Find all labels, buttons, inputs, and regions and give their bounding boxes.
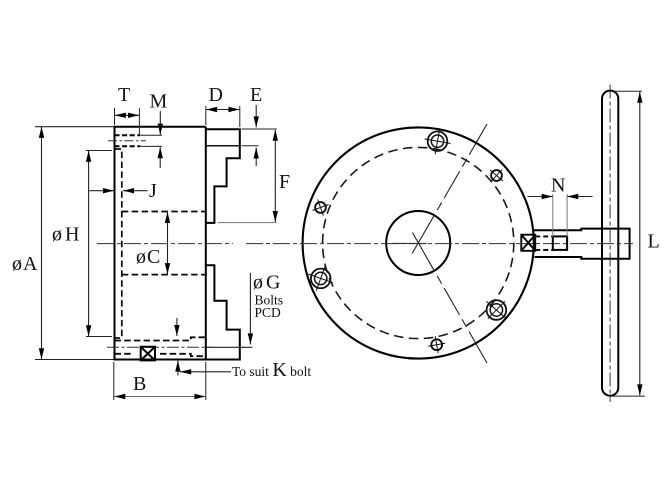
dimension N extension right	[566, 194, 568, 237]
hidden back recess outline	[115, 149, 122, 338]
øA bottom extension line	[35, 359, 115, 361]
chuck body bottom edge and jaw block bottom	[114, 358, 241, 360]
K bolt crossed box	[141, 347, 155, 361]
dimension D extension right	[239, 106, 241, 127]
dimension øH extension top	[86, 150, 112, 152]
tommy bar rod	[602, 91, 618, 396]
dimension F line	[274, 130, 276, 222]
center bore circle	[386, 211, 450, 275]
pinion hole upper right (plain)	[490, 169, 503, 181]
upper jaw divider line	[206, 145, 240, 147]
dimension L extension bottom	[611, 395, 645, 397]
dimension L line	[639, 92, 641, 396]
hidden lines box to socket top	[535, 235, 553, 237]
svg-text:E: E	[250, 84, 262, 106]
rear tapped hole centerline	[108, 140, 146, 142]
dimension M witness bottom	[141, 145, 162, 147]
center cross horizontal arm	[392, 242, 427, 244]
dimension M bottom arrow	[159, 147, 161, 168]
dimension øG leader arrow	[249, 273, 251, 345]
svg-text:D: D	[209, 84, 223, 106]
svg-text:L: L	[648, 231, 660, 253]
svg-text:T: T	[118, 84, 130, 106]
K bolt slot top arrow	[176, 318, 178, 336]
svg-text:B: B	[133, 373, 146, 395]
svg-text:PCD: PCD	[255, 305, 282, 320]
socket bar inner top	[534, 229, 630, 259]
rod vertical centerline	[609, 85, 611, 403]
dimension B extension left	[113, 362, 115, 400]
svg-text:øG: øG	[253, 272, 280, 294]
hidden bore øC upper line	[122, 211, 206, 213]
svg-text:J: J	[149, 180, 157, 202]
dimension L extension top	[612, 90, 642, 92]
dimension E top arrow	[255, 105, 257, 127]
hidden bolt slot lower line	[115, 353, 134, 355]
svg-text:øC: øC	[136, 246, 160, 268]
bolt hole lower right (crossed)	[486, 300, 506, 320]
dimension T line	[115, 114, 139, 116]
hidden rear tapped hole top	[115, 134, 141, 136]
dimension øH line	[88, 151, 90, 336]
bolt hole top (crossed)	[425, 128, 451, 154]
dashed circle	[323, 147, 514, 338]
chuck body front face	[205, 127, 207, 360]
dimension J right arrow	[123, 190, 148, 192]
outer circle	[303, 127, 534, 358]
K bolt slot bottom arrow	[177, 361, 179, 376]
dimension J left arrow	[89, 190, 114, 192]
dimension øC line	[167, 212, 169, 274]
dimension N left arrow	[527, 196, 552, 198]
bolt centerline across lower jaw block with øG witness extension	[206, 346, 252, 348]
svg-text:F: F	[279, 171, 290, 193]
dimension B extension right	[205, 362, 207, 400]
chuck body top edge	[114, 126, 206, 128]
upper jaw stepped profile	[206, 129, 240, 223]
dimension øH extension bottom	[86, 336, 112, 338]
lower jaw stepped profile	[206, 265, 240, 359]
dimension T extension left	[114, 108, 116, 125]
key square socket	[553, 236, 567, 250]
svg-text:N: N	[551, 175, 565, 197]
svg-text:øA: øA	[12, 253, 38, 275]
dimension M top arrow	[159, 111, 161, 135]
chuck body back face	[114, 127, 116, 360]
dimension M witness top	[141, 134, 162, 136]
dimension D line	[206, 109, 239, 111]
dimension E witness bottom	[242, 145, 259, 147]
main horizontal centerline right portion	[246, 243, 633, 245]
hidden bolt slot upper line	[115, 337, 206, 340]
jaw radial centerline lower right	[412, 233, 487, 364]
pinion hole upper left (plain)	[312, 199, 328, 215]
bolt hole left (crossed)	[308, 266, 333, 291]
dimension E bottom arrow	[255, 148, 257, 167]
dimension D extension left	[205, 106, 207, 125]
dimension N right arrow	[567, 196, 592, 198]
K bolt leader line	[180, 371, 231, 373]
main horizontal centerline left view	[97, 243, 233, 245]
svg-text:øH: øH	[52, 224, 79, 246]
hidden bolt slot lower line right part	[160, 354, 206, 356]
dimension F extension top	[242, 128, 277, 130]
dimension N extension left	[552, 194, 554, 237]
dimension F extension bottom	[218, 222, 277, 224]
hidden lines box to socket bottom	[535, 249, 553, 251]
dimension øA line	[41, 127, 43, 359]
crossed box at rim	[521, 235, 535, 251]
hidden bore øC lower line	[122, 274, 206, 276]
hidden rear tapped hole bottom	[115, 145, 141, 147]
pinion hole bottom (plain)	[428, 336, 445, 353]
svg-text:To suit K bolt: To suit K bolt	[232, 359, 311, 381]
øA top extension line	[35, 126, 115, 128]
dimension B line	[114, 396, 205, 398]
bolt hole centerline bottom	[107, 346, 213, 348]
jaw radial centerline upper right	[412, 124, 487, 253]
svg-text:M: M	[150, 91, 168, 113]
dimension T extension right	[138, 108, 140, 135]
